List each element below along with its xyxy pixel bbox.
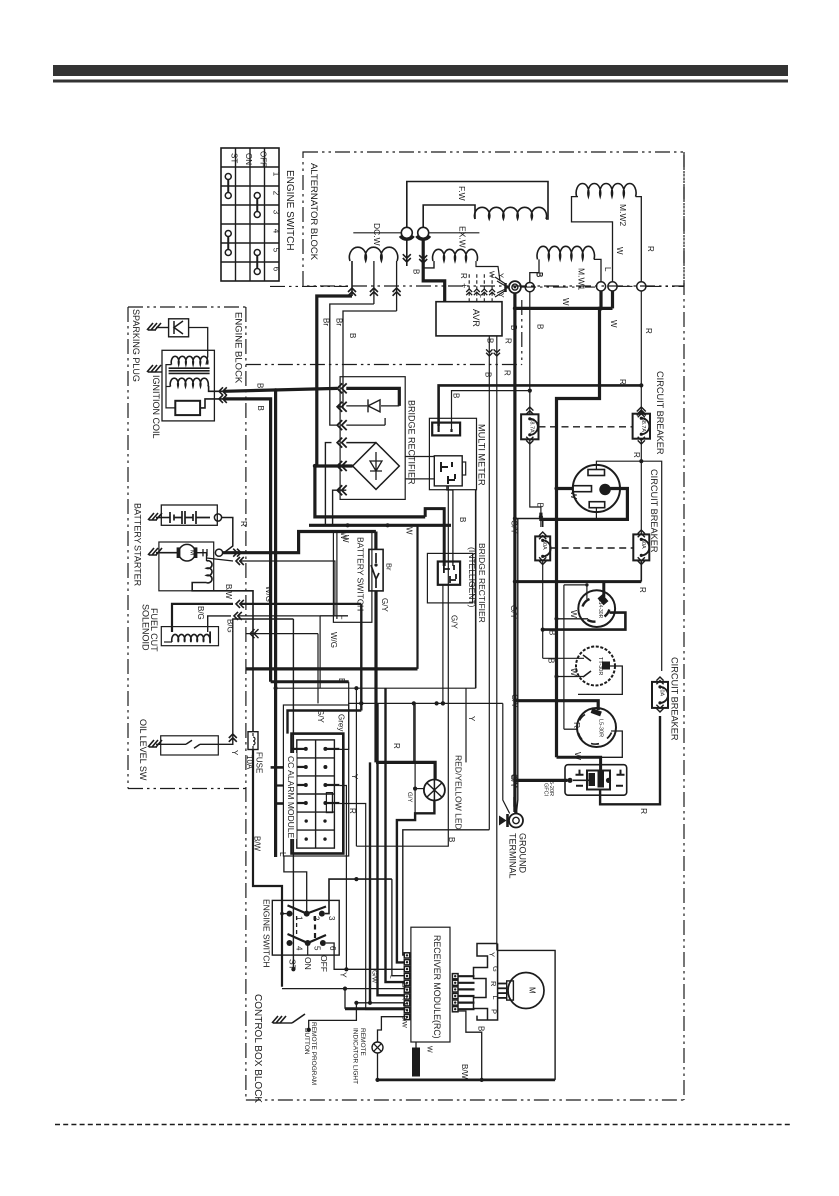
svg-text:CC ALARM MODULE: CC ALARM MODULE bbox=[286, 756, 296, 839]
ignition coil primary winding bbox=[170, 378, 208, 386]
remote indicator light bbox=[372, 1042, 383, 1053]
multimeter box bbox=[429, 418, 476, 489]
svg-text:P: P bbox=[490, 1009, 499, 1014]
bridge top loop wire bbox=[346, 388, 399, 406]
svg-text:R: R bbox=[632, 452, 641, 458]
svg-text:REMOTE: REMOTE bbox=[359, 1028, 366, 1056]
motor connector bracket bbox=[474, 944, 498, 1021]
svg-text:Y: Y bbox=[497, 273, 506, 278]
red/yellow LED bbox=[424, 780, 445, 801]
wire B from TT-30R bbox=[578, 666, 622, 694]
svg-text:STARTER: STARTER bbox=[133, 545, 143, 587]
wire B breaker down bbox=[530, 439, 541, 527]
wire battery switch top thick bbox=[374, 532, 377, 550]
engine switch wiper arms bbox=[288, 905, 327, 913]
svg-text:BATTERY SWITCH: BATTERY SWITCH bbox=[356, 537, 366, 611]
wire to receiver pin5 bbox=[386, 688, 405, 982]
wire LED bottom staircase to receiver bbox=[397, 801, 435, 963]
svg-text:BRIDGE RECTIFIER: BRIDGE RECTIFIER bbox=[477, 543, 487, 623]
svg-text:W: W bbox=[405, 527, 414, 535]
ignition coil core bbox=[169, 367, 210, 369]
motor M bbox=[508, 973, 544, 1009]
svg-text:ENGINE BLOCK: ENGINE BLOCK bbox=[233, 312, 244, 384]
alarm module notch bbox=[326, 793, 332, 813]
wire G/Y bus into ground terminal bbox=[515, 797, 516, 814]
wire thin frame at L14 bbox=[564, 584, 587, 586]
wire Y oil level switch bbox=[218, 619, 293, 744]
svg-text:W: W bbox=[569, 610, 579, 618]
connector fan to bulkhead bbox=[495, 277, 506, 297]
battery terminal circle bbox=[214, 514, 221, 521]
bridge rectifier intelligent outer box bbox=[427, 553, 472, 603]
receptacle TT-30R bbox=[576, 647, 615, 686]
circuit breaker 38.7A left bbox=[521, 414, 538, 439]
engine switch table ST contacts 4-5 bbox=[225, 231, 231, 237]
circuit breaker 30A left bbox=[535, 536, 550, 560]
receptacle L5-30R bbox=[577, 708, 616, 747]
svg-text:B: B bbox=[535, 272, 544, 277]
wire W/G run bbox=[246, 633, 318, 635]
wire Y down to engine switch bbox=[292, 619, 294, 969]
wire F.W top loop bbox=[407, 182, 548, 228]
svg-text:B: B bbox=[536, 324, 545, 329]
wire G/W contact5 bbox=[307, 943, 309, 955]
svg-text:F.W: F.W bbox=[457, 186, 467, 201]
svg-text:B: B bbox=[256, 383, 265, 388]
svg-text:Br: Br bbox=[400, 983, 407, 990]
wire into intelligent bridge 2 bbox=[447, 486, 453, 566]
svg-text:BATTERY: BATTERY bbox=[133, 503, 143, 544]
wire G/Y to GFCI bbox=[515, 779, 568, 782]
starter box bbox=[159, 542, 214, 591]
wire EX.W left end bbox=[425, 261, 435, 268]
svg-text:OIL LEVEL SW: OIL LEVEL SW bbox=[138, 719, 148, 781]
svg-text:R: R bbox=[348, 808, 357, 814]
wire to receiver pin8 bbox=[356, 1002, 404, 1004]
bridge wire chevron3 bbox=[346, 424, 385, 426]
svg-text:3: 3 bbox=[327, 916, 336, 921]
wire W to GFCI bbox=[557, 757, 601, 770]
wire B ignition 1 bbox=[219, 387, 223, 395]
multimeter top connector bbox=[432, 423, 460, 436]
wire junction vertical 356 bbox=[355, 688, 357, 846]
wire G/Y to LED bbox=[376, 762, 435, 779]
connector circle L bbox=[596, 282, 605, 291]
wire W to L14-30R bbox=[557, 618, 589, 620]
fuse 10A bbox=[248, 732, 258, 750]
engine switch table OFF contacts 5-6 bbox=[254, 250, 260, 256]
wire Br 2 from DC.W to bridge chevron bbox=[330, 304, 374, 425]
wire R to right edge down to 20A bbox=[641, 461, 661, 671]
svg-text:30A: 30A bbox=[640, 539, 646, 549]
alternator block border bbox=[303, 152, 684, 286]
svg-text:BUTTON: BUTTON bbox=[303, 1028, 310, 1055]
motor plug bbox=[507, 981, 514, 1000]
wire B ignition 1 branch down bbox=[274, 390, 277, 857]
svg-text:CIRCUIT BREAKER: CIRCUIT BREAKER bbox=[649, 469, 659, 553]
svg-text:G/Y: G/Y bbox=[509, 605, 518, 619]
ground terminal bbox=[509, 814, 523, 828]
wire G/Y battery switch down bbox=[374, 591, 377, 763]
svg-text:M.W1: M.W1 bbox=[577, 268, 587, 290]
wire spark plug to coil bbox=[189, 328, 208, 358]
wire B multimeter pin2 bbox=[452, 391, 530, 429]
ignition coil box bbox=[162, 350, 214, 421]
remote program button bbox=[272, 1016, 286, 1023]
svg-text:FUSE: FUSE bbox=[255, 752, 264, 773]
AVR box bbox=[436, 302, 502, 336]
wire B/G2 corner down bbox=[320, 615, 348, 617]
svg-text:ST: ST bbox=[229, 153, 238, 163]
svg-text:W: W bbox=[569, 491, 579, 499]
svg-text:Br: Br bbox=[385, 563, 394, 571]
wire thick into intelligent bridge 1 bbox=[425, 509, 444, 566]
svg-text:DC.W: DC.W bbox=[372, 223, 382, 246]
svg-text:W: W bbox=[615, 247, 624, 255]
wire primary right to B out bbox=[208, 387, 224, 392]
fuel cut solenoid box bbox=[161, 627, 218, 646]
svg-text:G/Y: G/Y bbox=[406, 792, 412, 802]
wire condenser right to B out bbox=[200, 399, 224, 408]
battery symbol bbox=[156, 517, 170, 519]
svg-text:Y: Y bbox=[350, 774, 359, 780]
page header thick bar bbox=[53, 65, 788, 76]
intelligent bridge connector bbox=[438, 562, 460, 585]
svg-text:CIRCUIT BREAKER: CIRCUIT BREAKER bbox=[655, 371, 665, 455]
svg-text:B: B bbox=[447, 837, 456, 842]
svg-text:L5-30R: L5-30R bbox=[598, 719, 604, 737]
svg-text:W/G: W/G bbox=[329, 632, 338, 648]
svg-text:5: 5 bbox=[313, 946, 322, 951]
bridge rectifier box bbox=[340, 377, 405, 500]
svg-text:B: B bbox=[477, 1026, 486, 1031]
alternator bottom boundary dash-dot segments bbox=[270, 285, 348, 287]
breaker gang link 2 dashed bbox=[550, 547, 633, 549]
svg-text:ON: ON bbox=[303, 957, 313, 970]
control box block top border bbox=[246, 364, 522, 366]
bridge rectifier chevrons bbox=[337, 383, 342, 393]
wire R to L5-30R bbox=[564, 728, 577, 730]
wire R to 14-50R top bbox=[596, 461, 641, 469]
wire B/G 1 bbox=[172, 604, 233, 632]
starter terminal circle bbox=[215, 549, 222, 556]
wire to receiver pin7 bbox=[378, 703, 405, 995]
receptacle 14-50R bbox=[573, 465, 620, 512]
svg-text:SPARKING PLUG: SPARKING PLUG bbox=[131, 309, 141, 382]
svg-text:G/Y: G/Y bbox=[450, 615, 459, 629]
svg-text:GROUND: GROUND bbox=[518, 833, 528, 873]
svg-text:B: B bbox=[348, 333, 357, 338]
svg-text:R: R bbox=[646, 246, 655, 252]
wire B/G to alarm pin2 bbox=[360, 604, 362, 711]
svg-text:G/Y: G/Y bbox=[380, 598, 389, 612]
wire R 20A down to GFCI bbox=[600, 716, 660, 804]
svg-text:MULTI METER: MULTI METER bbox=[477, 424, 487, 486]
starter solenoid coil bbox=[207, 561, 213, 583]
circuit breaker 30A right bbox=[633, 534, 649, 560]
fuel cut solenoid coil bbox=[172, 634, 210, 642]
battery switch element bbox=[369, 549, 383, 591]
svg-text:B/W: B/W bbox=[460, 1064, 469, 1080]
antenna bbox=[415, 1042, 417, 1048]
outer border bottom side bbox=[246, 1099, 684, 1101]
engine switch unit box bbox=[272, 900, 339, 955]
wire B bus from bulkhead down (G/Y main) bbox=[513, 293, 516, 812]
wire contact1 to B/W bbox=[282, 913, 287, 915]
alarm module pins bbox=[292, 748, 306, 750]
wire DC.W mid tap bbox=[373, 261, 375, 304]
ignition coil ground bbox=[147, 365, 161, 372]
starter motor M bbox=[156, 552, 179, 554]
oil level switch ground bbox=[148, 740, 162, 747]
rotor shaft line bbox=[353, 232, 401, 234]
wire W bus from L connector down bbox=[557, 291, 602, 757]
receiver right connector pins bbox=[452, 974, 458, 979]
wire to receiver pin4 bbox=[392, 879, 404, 976]
svg-text:TT-30R: TT-30R bbox=[597, 657, 603, 675]
svg-text:B/W: B/W bbox=[224, 584, 233, 600]
wire W starter out bbox=[223, 532, 376, 553]
svg-text:ON: ON bbox=[244, 153, 253, 165]
svg-text:GFCI: GFCI bbox=[543, 783, 549, 797]
svg-text:EX.W: EX.W bbox=[458, 226, 468, 248]
svg-text:W: W bbox=[573, 752, 583, 760]
wire from 14-50R bottom slot bbox=[595, 508, 597, 520]
wire DC.W right tap bbox=[396, 261, 398, 311]
receiver left connector pins bbox=[404, 953, 409, 958]
wire coil secondary right bbox=[206, 357, 208, 365]
svg-text:ANTENNA: ANTENNA bbox=[410, 1050, 416, 1077]
wire M.W1 left B to connector bbox=[530, 259, 539, 282]
wire W to 14-50R bbox=[557, 487, 574, 490]
svg-text:R: R bbox=[459, 273, 468, 279]
wire G/Y run y703 bbox=[348, 702, 503, 704]
svg-text:W: W bbox=[561, 298, 570, 306]
svg-text:+: + bbox=[459, 283, 469, 288]
svg-text:W/G: W/G bbox=[264, 586, 273, 602]
engine block border bbox=[128, 306, 246, 308]
svg-text:Grey: Grey bbox=[337, 714, 346, 731]
engine switch dashed links bbox=[296, 916, 298, 937]
svg-text:30A: 30A bbox=[541, 540, 547, 550]
svg-text:R: R bbox=[638, 587, 647, 593]
svg-text:Y: Y bbox=[488, 952, 497, 957]
bridge wire chevron4 to diamond bbox=[346, 442, 376, 444]
spark gap box bbox=[169, 319, 189, 337]
oil level switch box bbox=[161, 736, 219, 755]
wire B horizontal run bbox=[246, 667, 418, 670]
svg-text:RECEIVER MODULE(RC): RECEIVER MODULE(RC) bbox=[432, 935, 442, 1039]
receiver module box bbox=[411, 927, 450, 1042]
svg-text:B/G: B/G bbox=[196, 606, 205, 620]
wire alarm pin left links bbox=[271, 766, 284, 769]
svg-text:BRIDGE RECTIFIER: BRIDGE RECTIFIER bbox=[407, 400, 417, 485]
svg-text:B: B bbox=[484, 372, 493, 377]
page footer dashed line bbox=[55, 1124, 790, 1126]
battery box bbox=[161, 505, 217, 525]
wire R from alarm bbox=[339, 804, 404, 1010]
bridge diamond bbox=[353, 443, 400, 490]
wire G/Y to L5-30R top bbox=[515, 701, 598, 710]
svg-text:2: 2 bbox=[272, 191, 281, 196]
slip ring brush 1 bbox=[401, 227, 412, 238]
svg-text:B: B bbox=[509, 325, 518, 330]
wire coil secondary left down bbox=[166, 365, 175, 408]
wire M.W2 left to W connector bbox=[572, 197, 613, 283]
connector circle W bbox=[608, 282, 617, 291]
wire indicator light to B/W bus bbox=[377, 1053, 379, 1080]
wire G/Y intelligent bridge down bbox=[442, 585, 444, 704]
outer border right side bbox=[683, 152, 685, 1100]
wire R breaker to junction bbox=[640, 439, 642, 535]
svg-text:R: R bbox=[392, 743, 401, 749]
svg-text:M.W2: M.W2 bbox=[618, 204, 628, 226]
engine switch table OFF contacts 2-3 bbox=[254, 193, 260, 199]
wire R multimeter pin1 bbox=[439, 385, 642, 426]
svg-text:B: B bbox=[458, 517, 467, 522]
svg-text:G/Y: G/Y bbox=[509, 774, 518, 788]
wire thick bundle horizontal bbox=[309, 524, 451, 527]
wire B from AVR to receiver pin1 bbox=[403, 830, 490, 955]
engine switch table bbox=[221, 148, 279, 281]
svg-text:INDICATOR LIGHT: INDICATOR LIGHT bbox=[352, 1028, 359, 1084]
svg-text:SOLENOID: SOLENOID bbox=[141, 604, 151, 651]
wire bundle vertical to pin8 bbox=[369, 762, 371, 1002]
multimeter lower connector bbox=[434, 456, 462, 486]
circuit breaker 20A bbox=[652, 682, 668, 708]
starter ground bbox=[148, 548, 162, 555]
svg-text:38.7A: 38.7A bbox=[640, 418, 646, 433]
wire G/Y stub at LED bbox=[415, 788, 424, 790]
bridge diode top bbox=[346, 405, 367, 407]
svg-text:TERMINAL: TERMINAL bbox=[508, 833, 518, 879]
wire B from L14-30R bbox=[543, 613, 626, 630]
wire W to TT-30R bbox=[557, 676, 584, 678]
svg-text:38.7A: 38.7A bbox=[528, 418, 534, 433]
svg-text:R: R bbox=[639, 808, 649, 814]
bridge wire chevron6 bbox=[333, 490, 347, 525]
svg-text:L: L bbox=[603, 267, 612, 272]
svg-text:R: R bbox=[504, 338, 513, 344]
svg-text:R: R bbox=[572, 722, 582, 728]
wire primary left bbox=[166, 386, 171, 388]
wire starter to contact bbox=[197, 552, 207, 554]
svg-text:W: W bbox=[426, 1046, 433, 1053]
coil EX.W excitation winding bbox=[433, 249, 478, 261]
wire multimeter lower connector down bbox=[356, 486, 448, 846]
alarm module inner box bbox=[292, 734, 344, 854]
svg-text:W: W bbox=[341, 535, 350, 543]
svg-text:R: R bbox=[503, 370, 512, 376]
wire B into TT-30R slot bbox=[543, 657, 584, 659]
svg-text:3: 3 bbox=[272, 210, 281, 215]
slip ring brush 2 bbox=[418, 227, 429, 238]
wire B/G 2 bbox=[208, 616, 231, 632]
wire B/W fuse down to engine switch bbox=[253, 750, 282, 987]
svg-text:CONTROL BOX BLOCK: CONTROL BOX BLOCK bbox=[252, 994, 263, 1103]
svg-text:W: W bbox=[609, 320, 618, 328]
svg-text:B/W: B/W bbox=[401, 1016, 408, 1029]
wire multimeter left input 1 bbox=[405, 456, 434, 458]
wire B from DC.W right tap to bridge chevron bbox=[337, 311, 396, 407]
wire thick B bus to battery area bbox=[315, 466, 425, 517]
condenser box in coil bbox=[175, 401, 200, 415]
svg-text:ENGINE SWITCH: ENGINE SWITCH bbox=[284, 170, 295, 251]
bulkhead connector open circle B bbox=[525, 283, 534, 292]
svg-text:B: B bbox=[486, 338, 495, 343]
wire B down from 30A left bbox=[542, 560, 544, 658]
AVR dashed sense wires bbox=[468, 274, 470, 302]
svg-text:ALTERNATOR BLOCK: ALTERNATOR BLOCK bbox=[308, 163, 319, 261]
wire G/Y branch to 30A breaker bbox=[515, 519, 543, 528]
svg-text:6: 6 bbox=[272, 267, 281, 272]
wire Y from alarm bbox=[339, 786, 346, 970]
svg-text:B: B bbox=[256, 406, 265, 411]
battery ground bbox=[148, 513, 162, 520]
svg-text:OFF: OFF bbox=[258, 151, 267, 167]
wire brush2 to AVR R+ bbox=[423, 238, 445, 301]
wire brush1 B down with connector bbox=[406, 238, 408, 266]
svg-text:R: R bbox=[239, 521, 248, 527]
svg-text:Br: Br bbox=[335, 318, 344, 326]
svg-text:CIRCUIT BREAKER: CIRCUIT BREAKER bbox=[670, 657, 680, 741]
battery switch outer box bbox=[333, 532, 372, 622]
coil DC.W bbox=[349, 247, 397, 261]
coil F.W field winding bbox=[474, 207, 546, 219]
wire W horizontal from W connector bbox=[611, 291, 614, 308]
wire indicator light to receiver pin10 bbox=[378, 1017, 405, 1042]
coil M.W2 main winding 2 bbox=[576, 184, 636, 197]
wire button wire bbox=[309, 1003, 357, 1030]
wire R battery to starter node bbox=[222, 518, 233, 553]
svg-text:6: 6 bbox=[328, 946, 337, 951]
label CC ALARM MODULE bbox=[286, 753, 297, 839]
wire B ignition 2 bbox=[219, 395, 223, 403]
wire thick bus row to L14-30R bbox=[515, 580, 641, 583]
svg-text:L: L bbox=[278, 852, 287, 857]
svg-text:R: R bbox=[644, 328, 653, 334]
bulkhead connector double circle bbox=[509, 281, 521, 293]
wire grey vertical bbox=[413, 703, 415, 762]
svg-text:W: W bbox=[569, 668, 579, 676]
control box block boundary jog at bridge rectifier bbox=[521, 300, 523, 365]
wire contact3 right bbox=[325, 879, 356, 914]
wire receiver to motor connector bbox=[458, 975, 475, 977]
wire G/Y alarm top loop bbox=[288, 711, 362, 734]
alarm module connector grid bbox=[297, 740, 335, 848]
svg-text:REMOTE PROGRAM: REMOTE PROGRAM bbox=[310, 1022, 317, 1085]
engine switch table ST contacts 1-2 bbox=[225, 174, 231, 180]
breaker gang link dashed bbox=[539, 426, 633, 428]
wire B from AVR down bbox=[488, 336, 490, 830]
wire B/W bus to receiver bbox=[344, 989, 346, 1009]
svg-text:AVR: AVR bbox=[471, 309, 481, 327]
wire W from L5-30R bbox=[557, 731, 623, 757]
bridge output wire ch4 down bbox=[325, 443, 331, 526]
wire contact2 up to alarm bbox=[284, 856, 307, 914]
svg-text:L14-30R: L14-30R bbox=[597, 599, 603, 619]
wire M.W2 right R bbox=[636, 197, 642, 282]
bridge diamond diode bbox=[370, 452, 382, 480]
wire B from 14-50R pin bbox=[541, 489, 628, 520]
engine switch contacts 1-6 bbox=[287, 911, 293, 917]
svg-text:B: B bbox=[452, 393, 461, 398]
svg-text:Y: Y bbox=[339, 972, 349, 978]
alarm module outer box bbox=[283, 705, 348, 856]
wire L from solenoid down bbox=[333, 561, 336, 616]
connector circle R bbox=[637, 282, 646, 291]
wire B from receiver bottom bbox=[458, 1011, 482, 1080]
